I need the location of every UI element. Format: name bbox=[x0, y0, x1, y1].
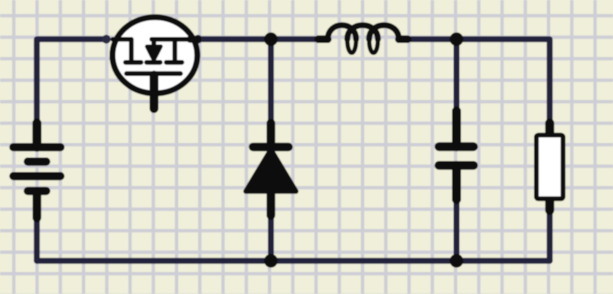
capacitor C1 bbox=[439, 111, 474, 200]
wire: resistor bottom to bottom-right corner bbox=[547, 207, 553, 261]
node: junction bottom rail / diode bbox=[264, 254, 278, 268]
node: junction top rail / capacitor bbox=[450, 32, 464, 46]
wire: bottom rail bbox=[37, 258, 550, 264]
node: MOSFET source terminal dot bbox=[194, 35, 203, 44]
wire: top rail to capacitor top bbox=[454, 39, 460, 107]
transistor M1 (MOSFET in circle) bbox=[112, 17, 198, 108]
wire: diode bottom to bottom rail bbox=[268, 218, 274, 261]
wire: MOSFET right terminal to inductor left terminal bbox=[198, 36, 318, 42]
node: MOSFET drain terminal dot bbox=[102, 35, 111, 44]
battery V1 bbox=[13, 123, 60, 218]
wire: inductor right terminal to top-right corner down to resistor bbox=[411, 39, 550, 122]
wire: battery bottom to bottom rail bbox=[34, 220, 40, 261]
inductor L1 bbox=[318, 25, 407, 53]
wire: battery top to top-left corner to MOSFET left terminal bbox=[37, 39, 104, 120]
resistor R1 bbox=[536, 123, 563, 211]
node: junction top rail / diode bbox=[264, 32, 278, 46]
node: junction bottom rail / capacitor bbox=[450, 254, 464, 268]
wire: capacitor bottom to bottom rail bbox=[454, 203, 460, 261]
diode D1 bbox=[246, 123, 296, 216]
wire: top rail to diode top bbox=[268, 39, 274, 120]
